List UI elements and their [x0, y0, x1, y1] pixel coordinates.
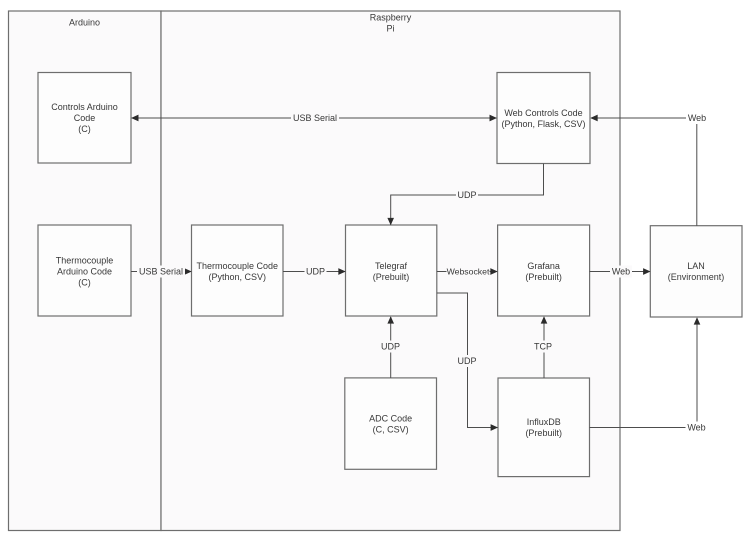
wire TCP (InfluxDB -> Grafana) — [531, 317, 553, 378]
box InfluxDB (Prebuilt) — [498, 378, 590, 477]
svg-text:(C): (C) — [78, 124, 91, 134]
svg-text:Arduino: Arduino — [69, 18, 100, 28]
svg-text:Code: Code — [74, 113, 96, 123]
svg-text:Thermocouple Code: Thermocouple Code — [197, 261, 279, 271]
wire Web (InfluxDB -> LAN, elbow) — [590, 318, 708, 434]
svg-text:(Prebuilt): (Prebuilt) — [525, 272, 562, 282]
svg-text:Websocket: Websocket — [447, 267, 490, 277]
box Thermocouple Code (Python, CSV) — [192, 225, 284, 316]
svg-text:(Prebuilt): (Prebuilt) — [525, 428, 562, 438]
svg-text:Grafana: Grafana — [527, 261, 560, 271]
svg-text:(Prebuilt): (Prebuilt) — [373, 272, 410, 282]
box Controls Arduino Code (C) — [38, 73, 131, 164]
svg-text:UDP: UDP — [381, 342, 400, 352]
wire Web (Grafana -> LAN) — [590, 266, 650, 278]
wire UDP (Thermocouple Code -> Telegraf) — [283, 266, 345, 278]
svg-text:InfluxDB: InfluxDB — [527, 417, 561, 427]
container Raspberry Pi — [161, 11, 620, 531]
box ADC Code (C, CSV) — [345, 378, 437, 469]
wire UDP (ADC Code -> Telegraf) — [380, 317, 402, 378]
svg-text:(C, CSV): (C, CSV) — [373, 425, 409, 435]
svg-text:Web Controls Code: Web Controls Code — [504, 108, 582, 118]
wire USB Serial (Thermocouple Arduino Code -> Thermocouple Code) — [131, 266, 191, 278]
svg-text:(C): (C) — [78, 278, 91, 288]
wire Web (LAN -> Web Controls Code, elbow) — [591, 112, 708, 226]
container Arduino — [9, 11, 162, 531]
svg-text:ADC Code: ADC Code — [369, 414, 412, 424]
svg-text:Telegraf: Telegraf — [375, 261, 408, 271]
wire UDP (Telegraf -> InfluxDB, elbow) — [437, 293, 498, 428]
svg-text:Web: Web — [612, 267, 630, 277]
svg-text:USB Serial: USB Serial — [139, 267, 183, 277]
svg-text:UDP: UDP — [457, 190, 476, 200]
box Grafana (Prebuilt) — [498, 225, 590, 316]
svg-text:Arduino Code: Arduino Code — [57, 267, 112, 277]
svg-text:Web: Web — [688, 113, 706, 123]
svg-text:Pi: Pi — [386, 24, 394, 34]
svg-text:LAN: LAN — [687, 261, 705, 271]
svg-text:Raspberry: Raspberry — [370, 13, 412, 23]
box Thermocouple Arduino Code (C) — [38, 225, 131, 316]
svg-text:Thermocouple: Thermocouple — [56, 256, 114, 266]
box Telegraf (Prebuilt) — [346, 225, 437, 316]
svg-text:(Environment): (Environment) — [668, 272, 725, 282]
box Web Controls Code (Python, Flask, CSV) — [497, 73, 590, 164]
wire USB Serial (Controls Arduino Code <-> Web Controls Code) — [132, 112, 496, 124]
svg-text:(Python, Flask, CSV): (Python, Flask, CSV) — [501, 119, 585, 129]
wire Websocket (Telegraf -> Grafana) — [437, 266, 497, 278]
svg-text:(Python, CSV): (Python, CSV) — [209, 272, 267, 282]
svg-text:USB Serial: USB Serial — [293, 113, 337, 123]
wire UDP (Web Controls Code -> Telegraf, elbow) — [391, 164, 544, 225]
svg-text:UDP: UDP — [306, 267, 325, 277]
svg-text:TCP: TCP — [534, 342, 552, 352]
box LAN (Environment) — [650, 226, 742, 317]
svg-text:Web: Web — [687, 423, 705, 433]
svg-text:UDP: UDP — [457, 356, 476, 366]
svg-text:Controls Arduino: Controls Arduino — [51, 102, 118, 112]
